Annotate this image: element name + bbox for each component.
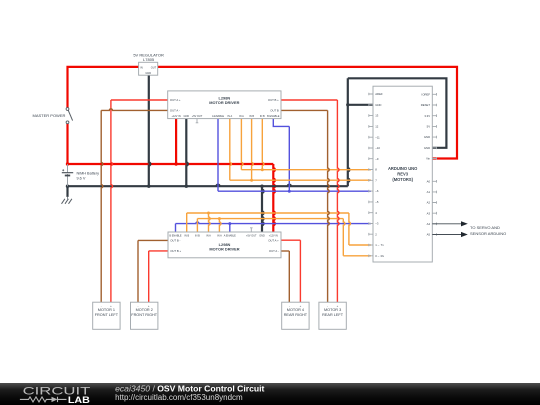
svg-text:A5: A5: [427, 233, 431, 237]
wire black top driver GND drop: [186, 119, 188, 187]
svg-text:(MOTORS): (MOTORS): [392, 177, 413, 182]
svg-text:3.3V: 3.3V: [424, 114, 430, 118]
svg-text:MOTOR 2: MOTOR 2: [136, 308, 153, 312]
wire black regulator GND drop: [149, 75, 151, 186]
node blue junction B ENABLE riser: [288, 190, 291, 193]
svg-text:IN A: IN A: [217, 234, 222, 237]
motor driver U4 L298N (bottom): [168, 232, 281, 258]
svg-text:IOREF: IOREF: [422, 92, 431, 96]
footer bar: [0, 383, 540, 405]
svg-text:+5V OUT: +5V OUT: [246, 234, 257, 237]
svg-text:GND: GND: [375, 103, 381, 107]
wire red top OUT B+ to motor3: [281, 99, 337, 101]
svg-text:IN A: IN A: [239, 115, 244, 118]
battery V1 NiMH 9.6V: [67, 164, 69, 186]
svg-text:A1: A1: [427, 190, 431, 194]
node blue junction A ENABLE: [228, 222, 231, 225]
svg-text:OUT: OUT: [151, 65, 157, 69]
wire brown bottom OUT A- to motor4: [281, 250, 289, 252]
wire orange top IN B drop: [252, 119, 254, 181]
motor M1 FRONT LEFT: [93, 302, 120, 329]
wire orange top IN B2 drop: [262, 119, 264, 170]
wire brown top OUT A- to motor1: [101, 109, 168, 111]
logo resistor and diode squiggle: [20, 397, 67, 402]
node orange junction IN A2 / Rx net: [218, 217, 221, 220]
svg-text:A ENABLE: A ENABLE: [212, 115, 224, 118]
wire orange bottom IN B to arduino 1 Tx: [186, 213, 188, 232]
node red junction bus/battery: [66, 162, 69, 165]
svg-text:FRONT LEFT: FRONT LEFT: [95, 313, 119, 317]
svg-text:IN A: IN A: [227, 115, 232, 118]
svg-text:A2: A2: [427, 201, 431, 205]
wire black bus drop to bottom driver GND: [262, 186, 264, 232]
svg-text:MASTER POWER: MASTER POWER: [33, 113, 66, 118]
svg-text:+5V OUT: +5V OUT: [192, 115, 203, 118]
svg-text:1 ← Tx: 1 ← Tx: [375, 243, 384, 247]
svg-text:IN A: IN A: [206, 234, 211, 237]
svg-text:A3: A3: [427, 211, 431, 215]
svg-text:GND: GND: [424, 146, 430, 150]
svg-text:IN B: IN B: [249, 115, 254, 118]
motor M3 REAR LEFT: [319, 302, 346, 329]
wire red bottom OUT B+ to motor2: [149, 250, 168, 252]
wire arrow A5 to servo arduino: [432, 234, 461, 236]
svg-text:-: -: [138, 304, 139, 308]
svg-text:LAB: LAB: [68, 395, 91, 405]
wire red regulator OUT to arduino Vin: [158, 67, 457, 159]
svg-text:MOTOR DRIVER: MOTOR DRIVER: [209, 100, 239, 105]
node black junction driver GND/bus: [185, 185, 188, 188]
wire blue bottom A ENABLE riser: [229, 224, 231, 232]
svg-text:~10: ~10: [375, 146, 380, 150]
svg-text:NiMH Battery: NiMH Battery: [77, 172, 100, 176]
svg-text:B ENABLE: B ENABLE: [267, 115, 280, 118]
wire red battery+ from switch to regulator IN (top left): [66, 124, 68, 164]
svg-text:+12V IN: +12V IN: [172, 115, 181, 118]
wire red top driver +12V IN drop: [175, 119, 177, 164]
wire orange bottom IN A riser: [209, 213, 211, 232]
wire black top loop to arduino right GND: [348, 78, 447, 148]
svg-text:OUT A +: OUT A +: [268, 238, 279, 242]
wire orange top IN A2 to arduino 8: [241, 119, 243, 170]
svg-text:SENSOR ARDUINO: SENSOR ARDUINO: [470, 231, 506, 236]
ground GND1: [67, 197, 69, 199]
wire arrow A4 to servo arduino: [432, 223, 461, 225]
regulator U2 L7805: [139, 62, 158, 75]
node black junction bus/bottom GND: [260, 185, 263, 188]
svg-text:+12V IN: +12V IN: [269, 234, 278, 237]
svg-text:OUT B +: OUT B +: [268, 98, 279, 102]
svg-text:REAR RIGHT: REAR RIGHT: [284, 313, 308, 317]
motor M4 REAR RIGHT: [282, 302, 309, 329]
svg-text:Vin: Vin: [426, 157, 430, 161]
svg-text:TO SERVO AND: TO SERVO AND: [470, 225, 500, 230]
svg-text:L7805: L7805: [143, 57, 155, 62]
svg-text:OUT A +: OUT A +: [170, 98, 181, 102]
svg-text:-: -: [327, 304, 328, 308]
svg-text:~3: ~3: [375, 222, 379, 226]
svg-text:~9: ~9: [375, 157, 379, 161]
svg-text:GND: GND: [259, 234, 265, 237]
wire red bottom OUT A+ to motor4: [281, 239, 300, 241]
arduino U1 ARDUINO UNO REV3 (MOTORS): [373, 86, 432, 262]
wire red top OUT A+ to motor1: [111, 99, 168, 101]
svg-text:5V: 5V: [427, 125, 431, 129]
svg-text:http://circuitlab.com/cf353un8: http://circuitlab.com/cf353un8yndcm: [115, 393, 243, 402]
svg-text:IN B: IN B: [184, 234, 189, 237]
switch SW1 MASTER POWER: [66, 108, 69, 111]
svg-text:REV3: REV3: [397, 171, 408, 176]
svg-text:0 ← Rx: 0 ← Rx: [375, 254, 384, 258]
svg-text:MOTOR 3: MOTOR 3: [324, 308, 341, 312]
motor driver U3 L298N (top): [168, 91, 281, 119]
wire orange bottom IN A2 riser: [219, 219, 221, 232]
svg-text:B ENABLE: B ENABLE: [169, 234, 182, 237]
svg-text:IN B: IN B: [260, 115, 265, 118]
wire brown top OUT B- to motor3: [281, 109, 328, 111]
svg-text:~11: ~11: [375, 135, 380, 139]
svg-text:MOTOR DRIVER: MOTOR DRIVER: [209, 247, 239, 252]
wire black ground lead: [66, 186, 68, 197]
node black junction regulator GND/bus: [147, 185, 150, 188]
node orange junction IN B2: [261, 168, 264, 171]
svg-text:9.6 V: 9.6 V: [77, 176, 86, 180]
svg-text:GND: GND: [145, 71, 151, 75]
svg-text:OUT A -: OUT A -: [269, 249, 279, 253]
node orange junction IN B: [250, 179, 253, 182]
wire black branch to arduino left GND: [348, 104, 373, 106]
wire brown bottom OUT B- to motor2: [138, 239, 168, 241]
svg-text:MOTOR 4: MOTOR 4: [287, 308, 304, 312]
svg-text:12: 12: [375, 125, 379, 129]
motor M2 FRONT RIGHT: [131, 302, 158, 329]
svg-text:~6: ~6: [375, 189, 379, 193]
wire blue bottom B ENABLE to arduino ~3: [175, 224, 177, 232]
wire orange bottom IN B2 to arduino 0 Rx: [196, 219, 198, 232]
wire blue top A ENABLE to arduino ~6: [217, 119, 219, 192]
node black junction riser/GND pin: [346, 103, 349, 106]
wire blue top B ENABLE riser: [273, 119, 289, 127]
wire orange top IN A to arduino 7: [230, 119, 232, 181]
svg-text:-: -: [289, 304, 290, 308]
svg-text:OUT B: OUT B: [270, 109, 279, 113]
svg-text:GND: GND: [424, 135, 430, 139]
svg-text:A ENABLE: A ENABLE: [224, 234, 236, 237]
svg-text:13: 13: [375, 114, 379, 118]
svg-text:FRONT RIGHT: FRONT RIGHT: [131, 313, 158, 317]
svg-text:GND: GND: [184, 115, 190, 118]
svg-text:~5: ~5: [375, 200, 379, 204]
svg-text:OUT A -: OUT A -: [170, 109, 180, 113]
svg-text:OUT B +: OUT B +: [170, 249, 181, 253]
svg-text:RESET: RESET: [421, 103, 431, 107]
svg-text:AREF: AREF: [375, 92, 383, 96]
node black junction battery-/bus: [66, 185, 69, 188]
svg-text:REAR LEFT: REAR LEFT: [322, 313, 344, 317]
svg-text:-: -: [101, 304, 102, 308]
svg-text:MOTOR 1: MOTOR 1: [98, 308, 115, 312]
svg-text:A4: A4: [427, 222, 431, 226]
svg-text:A0: A0: [427, 179, 431, 183]
node red junction +12V/bus: [174, 162, 177, 165]
wire red bus drop to bottom driver +12V IN: [273, 164, 275, 232]
wire red battery+ bus: [66, 163, 273, 165]
wire black battery- bus: [66, 185, 347, 187]
svg-text:IN: IN: [140, 65, 143, 69]
svg-text:ARDUINO UNO: ARDUINO UNO: [388, 166, 418, 171]
node orange junction IN A / Tx net: [207, 212, 210, 215]
wire black riser to top loop: [348, 78, 350, 186]
svg-text:IN B: IN B: [195, 234, 200, 237]
svg-text:OUT B -: OUT B -: [170, 239, 180, 243]
